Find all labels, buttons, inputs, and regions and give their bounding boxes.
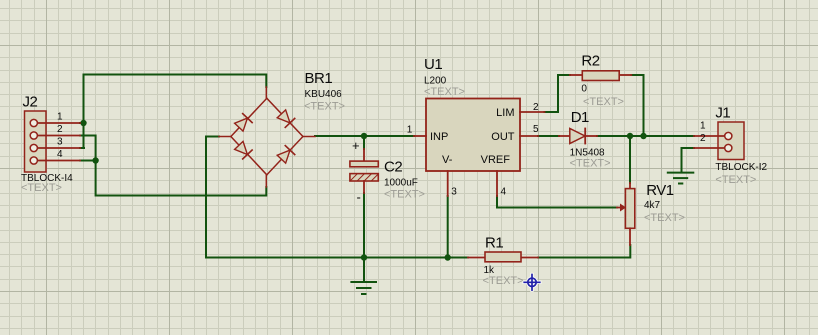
svg-text:C2: C2 [384, 158, 402, 175]
svg-text:VREF: VREF [481, 154, 511, 166]
svg-text:RV1: RV1 [646, 182, 674, 199]
node junction out to RV1 [627, 133, 633, 139]
svg-text:<TEXT>: <TEXT> [384, 189, 425, 201]
svg-text:1000uF: 1000uF [384, 178, 418, 189]
svg-text:4: 4 [501, 187, 507, 198]
wire net A top: J2 pins 1,3 to BR1 top [84, 75, 267, 149]
svg-text:R1: R1 [485, 235, 503, 252]
wire out node down to RV1 top [629, 136, 631, 183]
svg-text:+: + [352, 138, 360, 153]
wire LIM to R2 left [545, 75, 571, 112]
wire pin4 stub extension [80, 160, 96, 162]
wire pin3 stub extension [80, 147, 84, 149]
svg-text:<TEXT>: <TEXT> [715, 174, 756, 186]
capacitor C2 1000uF [350, 138, 425, 205]
svg-text:3: 3 [57, 136, 63, 147]
wire U1 pin3 to rail [447, 196, 449, 258]
svg-text:INP: INP [430, 131, 448, 143]
wire J1 pin2 to ground [682, 148, 695, 172]
node junction ground rail pin3 [445, 254, 451, 260]
svg-text:TBLOCK-I2: TBLOCK-I2 [715, 162, 767, 173]
node junction out to R2 [640, 133, 646, 139]
svg-text:D1: D1 [571, 109, 589, 126]
svg-text:-: - [357, 190, 361, 205]
svg-text:3: 3 [451, 187, 457, 198]
wire BR1 plus to INP [315, 135, 414, 137]
svg-text:<TEXT>: <TEXT> [483, 275, 524, 287]
svg-text:<TEXT>: <TEXT> [21, 182, 62, 194]
wire R1 right to RV1 bottom [538, 245, 630, 258]
origin marker [524, 275, 540, 291]
svg-text:5: 5 [533, 124, 539, 135]
svg-text:OUT: OUT [491, 131, 515, 143]
connector J2 TBLOCK-I4 [21, 94, 80, 195]
svg-text:<TEXT>: <TEXT> [424, 86, 465, 98]
node junction C2 top [361, 133, 367, 139]
bridge rectifier BR1 KBU406 [219, 70, 345, 187]
wire net B: J2 pins 2,4 down to bottom [80, 136, 266, 196]
node junction J2 pin1 [80, 120, 86, 126]
svg-text:L200: L200 [424, 76, 447, 87]
diode BR1 top-right [277, 109, 295, 127]
svg-text:2: 2 [533, 102, 539, 113]
svg-text:1: 1 [407, 125, 413, 136]
wire C2 top lead join [363, 136, 365, 149]
svg-text:KBU406: KBU406 [305, 89, 343, 100]
diode BR1 top-left [234, 114, 252, 132]
node junction J2 pin4 [92, 157, 98, 163]
wire U1 pin4 to RV1 wiper [497, 196, 617, 208]
ground at J1 pin2 [668, 173, 694, 184]
diode BR1 bottom-left [234, 141, 252, 159]
wire OUT to D1 [538, 135, 559, 137]
wire BR1 minus to bottom rail [206, 137, 364, 258]
resistor R1 1k [468, 235, 538, 288]
potentiometer RV1 4k7 [617, 182, 685, 245]
svg-text:<TEXT>: <TEXT> [304, 100, 345, 112]
resistor R2 0 [570, 52, 631, 108]
wire D1 cathode to J1 pin1 [597, 135, 694, 137]
node junction ground rail C2 [361, 254, 367, 260]
diode BR1 bottom-right [277, 146, 295, 164]
svg-text:1: 1 [57, 111, 63, 122]
svg-text:V-: V- [442, 154, 453, 166]
svg-text:<TEXT>: <TEXT> [644, 212, 685, 224]
svg-text:<TEXT>: <TEXT> [583, 96, 624, 108]
regulator U1 L200 [407, 56, 545, 198]
wire pin1 stub extension [80, 122, 84, 124]
svg-text:0: 0 [581, 84, 587, 95]
svg-text:U1: U1 [424, 56, 442, 73]
svg-text:R2: R2 [581, 52, 599, 69]
svg-text:2: 2 [700, 133, 706, 144]
svg-text:2: 2 [57, 124, 63, 135]
wire bottom rail to R1 [364, 257, 468, 259]
diode D1 1N5408 [559, 109, 611, 169]
wire C2 bottom to rail [363, 193, 365, 258]
svg-text:LIM: LIM [496, 107, 514, 119]
svg-text:4: 4 [57, 149, 63, 160]
ground at C2 / bottom rail [351, 258, 376, 295]
svg-text:4k7: 4k7 [644, 200, 661, 211]
svg-text:BR1: BR1 [305, 70, 333, 87]
svg-text:1: 1 [700, 121, 706, 132]
svg-text:J1: J1 [715, 105, 730, 122]
wire R2 right down to out node [631, 75, 643, 136]
svg-text:J2: J2 [23, 94, 38, 111]
svg-text:<TEXT>: <TEXT> [570, 157, 611, 169]
connector J1 TBLOCK-I2 [694, 105, 768, 186]
